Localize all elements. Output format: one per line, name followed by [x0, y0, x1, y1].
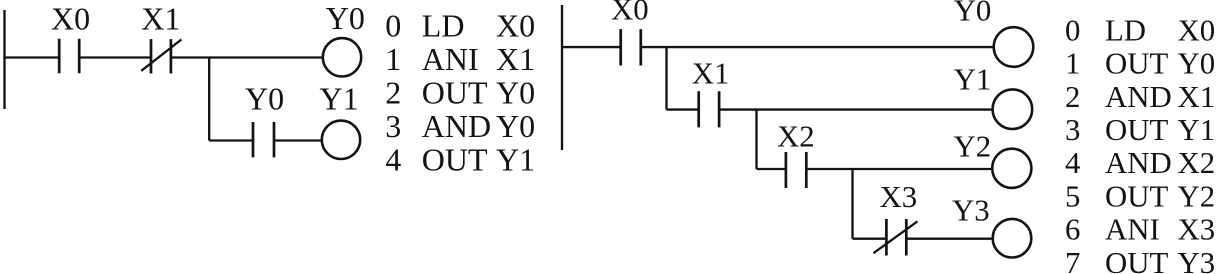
svg-text:Y2: Y2 — [954, 130, 992, 164]
svg-text:7: 7 — [1065, 246, 1080, 274]
svg-text:X2: X2 — [777, 119, 815, 153]
svg-text:Y0: Y0 — [496, 108, 535, 144]
svg-text:6: 6 — [1065, 213, 1080, 247]
svg-text:X1: X1 — [1178, 80, 1216, 114]
svg-text:Y2: Y2 — [1178, 179, 1216, 213]
svg-text:X3: X3 — [1178, 213, 1216, 247]
svg-text:ANI: ANI — [422, 41, 479, 77]
svg-text:AND: AND — [1105, 80, 1172, 114]
svg-text:AND: AND — [422, 108, 491, 144]
svg-text:Y3: Y3 — [952, 193, 990, 227]
svg-text:X0: X0 — [496, 8, 535, 44]
svg-text:X1: X1 — [141, 0, 180, 36]
svg-text:LD: LD — [422, 8, 465, 44]
svg-text:OUT: OUT — [422, 75, 488, 111]
svg-text:Y0: Y0 — [326, 0, 365, 36]
svg-text:X1: X1 — [496, 41, 535, 77]
svg-text:3: 3 — [385, 108, 401, 144]
svg-text:Y0: Y0 — [1178, 47, 1216, 81]
svg-text:OUT: OUT — [1105, 113, 1168, 147]
svg-text:4: 4 — [1065, 146, 1080, 180]
svg-text:0: 0 — [385, 8, 401, 44]
svg-text:Y1: Y1 — [320, 81, 359, 117]
svg-text:OUT: OUT — [1105, 179, 1168, 213]
svg-text:2: 2 — [1065, 80, 1080, 114]
svg-text:ANI: ANI — [1105, 213, 1160, 247]
svg-text:X0: X0 — [611, 0, 649, 27]
svg-text:1: 1 — [385, 41, 401, 77]
svg-text:0: 0 — [1065, 13, 1080, 47]
svg-text:OUT: OUT — [422, 142, 488, 178]
svg-text:AND: AND — [1105, 146, 1172, 180]
svg-text:Y1: Y1 — [1178, 113, 1216, 147]
svg-text:Y0: Y0 — [496, 75, 535, 111]
svg-text:X1: X1 — [692, 57, 730, 91]
svg-text:1: 1 — [1065, 47, 1080, 81]
svg-text:LD: LD — [1105, 13, 1146, 47]
svg-text:Y1: Y1 — [954, 62, 992, 96]
svg-text:3: 3 — [1065, 113, 1080, 147]
svg-text:4: 4 — [385, 142, 401, 178]
svg-text:Y3: Y3 — [1178, 246, 1216, 274]
svg-text:X3: X3 — [880, 180, 918, 214]
svg-text:Y0: Y0 — [245, 81, 284, 117]
svg-text:2: 2 — [385, 75, 401, 111]
svg-text:OUT: OUT — [1105, 246, 1168, 274]
svg-text:X0: X0 — [1178, 13, 1216, 47]
svg-text:OUT: OUT — [1105, 47, 1168, 81]
svg-text:X0: X0 — [51, 0, 90, 36]
svg-text:5: 5 — [1065, 179, 1080, 213]
svg-text:X2: X2 — [1178, 146, 1216, 180]
svg-text:Y0: Y0 — [954, 0, 992, 28]
svg-text:Y1: Y1 — [496, 142, 535, 178]
